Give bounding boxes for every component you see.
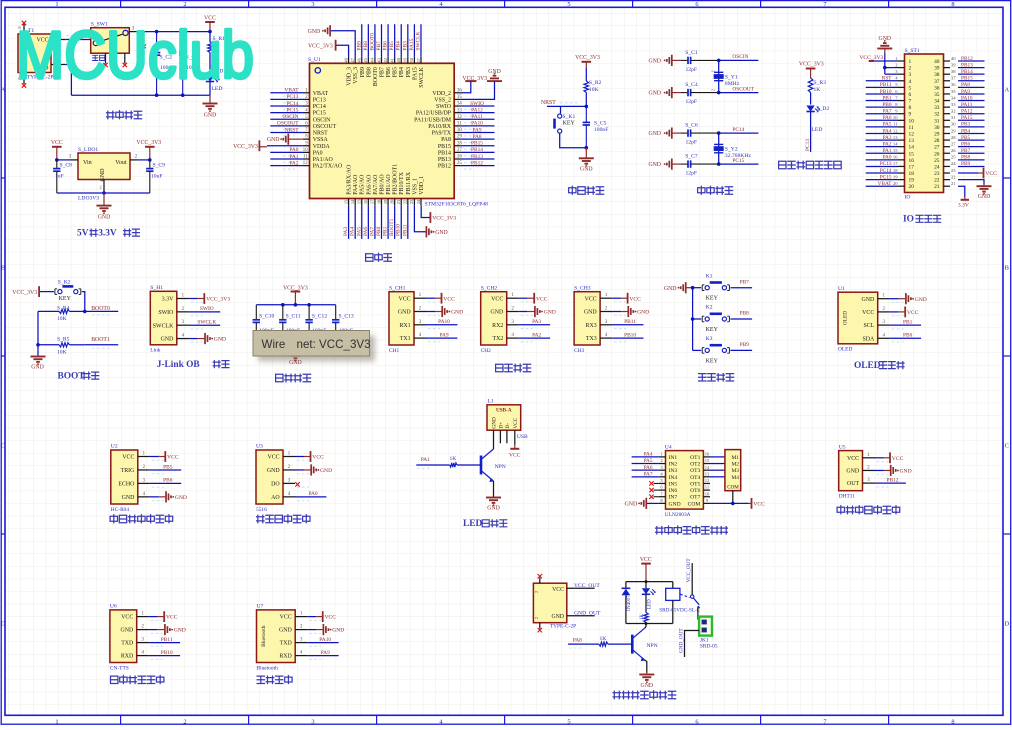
caption dht11	[837, 506, 900, 514]
svg-text:S_C7: S_C7	[685, 154, 698, 160]
svg-text:MCUclub: MCUclub	[16, 18, 254, 93]
svg-text:S_R3: S_R3	[814, 80, 827, 86]
resistor S_R1	[209, 32, 211, 42]
svg-text:C: C	[1, 442, 5, 449]
svg-text:PA4: PA4	[644, 452, 653, 458]
svg-text:39: 39	[934, 66, 940, 72]
svg-text:PA9: PA9	[321, 650, 330, 656]
wire	[710, 463, 725, 465]
no connect	[649, 495, 653, 499]
header S_ST1 body	[905, 54, 944, 193]
svg-text:M3: M3	[732, 468, 740, 474]
svg-text:Vout: Vout	[115, 160, 127, 166]
svg-text:GND: GND	[544, 310, 556, 316]
svg-text:47: 47	[350, 57, 355, 62]
wire	[461, 105, 495, 107]
svg-text:U3: U3	[256, 444, 263, 450]
svg-text:SDA: SDA	[863, 336, 876, 342]
svg-text:Vin: Vin	[83, 160, 92, 166]
wire key rail	[692, 288, 694, 351]
svg-text:VCC_3V3: VCC_3V3	[233, 144, 258, 150]
svg-text:S_D2: S_D2	[817, 106, 830, 112]
svg-text:BOOT0: BOOT0	[369, 33, 375, 51]
svg-text:PA9: PA9	[439, 332, 448, 338]
svg-text:VCC: VCC	[509, 452, 521, 458]
svg-text:TXD: TXD	[280, 641, 293, 647]
wire	[890, 311, 899, 313]
wire	[958, 73, 985, 75]
svg-text:HC-R04: HC-R04	[111, 507, 130, 513]
svg-text:VCC_3V3: VCC_3V3	[432, 216, 456, 222]
wire	[307, 629, 316, 631]
wire filter top rail	[256, 304, 335, 306]
wire	[270, 105, 303, 107]
svg-text:VBAT: VBAT	[878, 181, 893, 187]
svg-text:8: 8	[951, 1, 954, 8]
wire boot1	[85, 344, 118, 346]
svg-text:TRIG: TRIG	[121, 468, 135, 474]
svg-text:VCC: VCC	[443, 296, 455, 302]
svg-text:23: 23	[409, 199, 414, 204]
caption relay	[613, 691, 676, 699]
svg-text:14: 14	[350, 199, 355, 204]
svg-text:2: 2	[183, 1, 186, 8]
no-connect T2 bottom	[539, 623, 541, 629]
svg-text:PA3/RX/AO: PA3/RX/AO	[347, 164, 353, 195]
svg-text:GND: GND	[846, 469, 860, 475]
svg-text:40: 40	[951, 56, 956, 61]
wire	[866, 93, 898, 95]
svg-text:5: 5	[567, 1, 570, 8]
svg-text:D: D	[1, 620, 6, 627]
svg-text:LED: LED	[647, 599, 652, 609]
wire	[150, 496, 159, 498]
wire relay bottom rail	[626, 623, 673, 625]
wire	[958, 100, 985, 102]
svg-text:PA0: PA0	[289, 147, 298, 153]
wire	[348, 205, 350, 239]
no-ERC marker	[142, 45, 146, 49]
ground GND filter	[294, 334, 296, 353]
svg-text:PA2: PA2	[532, 332, 541, 338]
wire	[150, 469, 181, 471]
capacitor S_C13	[335, 305, 337, 320]
pin gnd of LDO1	[103, 180, 105, 194]
junction VCC R1	[208, 30, 212, 34]
svg-text:1K: 1K	[640, 614, 645, 621]
svg-text:GND: GND	[492, 417, 498, 429]
wire	[612, 297, 621, 299]
wire power bottom rail	[71, 94, 210, 96]
wire	[875, 457, 884, 459]
svg-text:1uF: 1uF	[55, 174, 64, 180]
caption keys	[699, 374, 734, 381]
svg-text:25: 25	[951, 155, 956, 160]
svg-text:M1: M1	[732, 455, 740, 461]
svg-text:GND: GND	[551, 614, 564, 620]
svg-text:33: 33	[934, 105, 940, 111]
wire	[958, 159, 985, 161]
capacitor S_C11	[282, 305, 284, 320]
svg-text:13: 13	[909, 138, 915, 144]
svg-text:PB14: PB14	[471, 147, 483, 153]
wire	[189, 338, 198, 340]
svg-text:VSSA: VSSA	[313, 137, 329, 143]
no-connect pin top of T1	[23, 24, 25, 34]
svg-text:PA0: PA0	[883, 155, 892, 161]
svg-text:SWIO: SWIO	[158, 310, 174, 316]
capacitor S_C8	[56, 160, 58, 169]
switch S_SW1	[91, 28, 130, 54]
wire	[719, 132, 759, 134]
svg-text:19: 19	[893, 174, 898, 179]
svg-text:TX1: TX1	[400, 336, 411, 342]
svg-text:34: 34	[951, 95, 956, 100]
svg-text:16: 16	[909, 158, 915, 164]
mcu U1 body	[310, 63, 455, 198]
svg-text:PA10/RX: PA10/RX	[428, 124, 451, 130]
svg-text:PB15: PB15	[471, 141, 483, 147]
svg-text:GND: GND	[122, 495, 136, 501]
svg-text:PB12: PB12	[438, 164, 451, 170]
power port GND	[204, 333, 206, 344]
wire	[612, 324, 643, 326]
svg-text:BOOT1: BOOT1	[91, 337, 110, 343]
svg-text:21: 21	[396, 200, 401, 205]
wire	[632, 463, 659, 465]
power port GND	[322, 624, 324, 635]
svg-text:COM: COM	[727, 485, 739, 491]
svg-text:PB1/AO: PB1/AO	[386, 174, 392, 195]
svg-text:D+: D+	[499, 422, 505, 429]
wire	[426, 324, 457, 326]
svg-text:VCC_OUT: VCC_OUT	[686, 558, 692, 583]
svg-text:VCC: VCC	[985, 171, 997, 177]
wire	[270, 125, 303, 127]
svg-text:VSS_1: VSS_1	[412, 178, 418, 195]
svg-text:PB12: PB12	[961, 56, 973, 62]
wire	[189, 298, 198, 300]
svg-text:10K: 10K	[57, 316, 67, 322]
svg-text:1K: 1K	[450, 456, 457, 462]
svg-text:24: 24	[416, 199, 421, 204]
svg-text:PA5: PA5	[883, 122, 892, 128]
wire	[866, 119, 898, 121]
junction bottom C2	[155, 93, 159, 97]
wire	[367, 205, 369, 239]
svg-text:PB11/RX: PB11/RX	[406, 171, 412, 194]
no connect	[295, 482, 299, 486]
svg-text:U6: U6	[110, 604, 117, 610]
wire	[958, 119, 985, 121]
svg-text:100nF: 100nF	[594, 127, 608, 133]
wire nrst	[547, 105, 586, 107]
svg-text:GND: GND	[487, 506, 500, 512]
wire vcc to pin3	[57, 159, 71, 161]
no-connect pin bottom of T1	[23, 73, 25, 85]
wire	[958, 93, 985, 95]
svg-text:VCC: VCC	[325, 615, 337, 621]
svg-text:16: 16	[893, 155, 898, 160]
svg-text:VCC: VCC	[491, 296, 503, 302]
driver gnd pin wire	[647, 502, 659, 504]
svg-text:PB3: PB3	[961, 122, 970, 128]
wire	[866, 100, 898, 102]
svg-text:PB5: PB5	[163, 464, 173, 470]
svg-text:VCC: VCC	[280, 615, 292, 621]
svg-text:VCC: VCC	[398, 296, 410, 302]
svg-text:12pF: 12pF	[686, 140, 698, 146]
svg-text:ECHO: ECHO	[118, 482, 135, 488]
svg-text:13: 13	[343, 199, 348, 204]
ground GND keys	[685, 282, 687, 293]
svg-text:VCC_3V3: VCC_3V3	[12, 290, 37, 296]
wire	[890, 324, 921, 326]
svg-text:9: 9	[909, 112, 912, 118]
svg-text:21: 21	[951, 181, 956, 186]
svg-text:PB15: PB15	[438, 144, 451, 150]
svg-text:PB0: PB0	[376, 226, 382, 236]
module U6 body	[110, 610, 137, 663]
svg-text:PB5: PB5	[961, 135, 970, 141]
junction C3 top	[181, 30, 185, 34]
power port GND	[890, 465, 892, 476]
svg-text:VCC: VCC	[167, 455, 179, 461]
wire	[866, 80, 898, 82]
svg-text:18: 18	[909, 171, 915, 177]
svg-text:2: 2	[909, 66, 912, 72]
svg-text:SWIO: SWIO	[470, 101, 484, 107]
svg-text:STM32F103C8T6_LQFP48: STM32F103C8T6_LQFP48	[425, 202, 489, 208]
wire	[461, 81, 495, 99]
svg-text:A: A	[1, 86, 6, 93]
svg-text:PA9: PA9	[961, 89, 970, 95]
no connect	[649, 488, 653, 492]
svg-text:40: 40	[396, 57, 401, 62]
svg-text:SWIO: SWIO	[200, 306, 214, 312]
svg-text:S_C1: S_C1	[685, 50, 698, 56]
svg-text:GND: GND	[451, 310, 463, 316]
svg-text:PA1: PA1	[421, 457, 430, 463]
wire	[875, 469, 884, 471]
module S_CH1 body	[389, 292, 414, 345]
svg-text:GND: GND	[320, 468, 332, 474]
svg-text:GND: GND	[915, 297, 927, 303]
svg-text:PB1: PB1	[882, 95, 891, 101]
wire	[719, 59, 759, 61]
svg-text:PB13: PB13	[471, 154, 483, 160]
svg-text:10: 10	[909, 118, 915, 124]
wire	[519, 337, 550, 339]
junction ldo gnd	[102, 191, 106, 195]
svg-text:12pF: 12pF	[686, 99, 698, 105]
svg-text:PA9/TX: PA9/TX	[432, 131, 452, 137]
caption filter	[276, 374, 311, 381]
svg-text:OT4: OT4	[690, 475, 700, 481]
wire filter bottom rail	[256, 333, 335, 335]
svg-text:S_U1: S_U1	[308, 57, 321, 63]
wire	[381, 24, 383, 57]
svg-text:16: 16	[363, 199, 368, 204]
svg-text:S_K2: S_K2	[58, 279, 71, 285]
caption program led	[779, 161, 842, 168]
svg-text:24: 24	[934, 164, 940, 170]
svg-text:GND: GND	[648, 59, 661, 65]
pin vcc of T2	[567, 587, 595, 589]
svg-text:PB11: PB11	[880, 82, 892, 88]
wire motor com	[732, 491, 734, 504]
svg-text:PB7: PB7	[376, 41, 382, 51]
wire	[710, 456, 725, 458]
svg-text:U1: U1	[838, 286, 845, 292]
svg-text:PA7: PA7	[883, 109, 892, 115]
svg-text:6: 6	[695, 718, 698, 725]
svg-text:39: 39	[951, 62, 956, 67]
wire	[866, 113, 898, 115]
svg-text:NPN: NPN	[647, 643, 658, 649]
power port GND	[441, 306, 443, 317]
svg-text:PA7/AO: PA7/AO	[373, 174, 379, 195]
svg-text:22: 22	[951, 174, 956, 179]
svg-text:PA6: PA6	[883, 115, 892, 121]
svg-text:RX1: RX1	[399, 323, 410, 329]
wire	[958, 106, 985, 108]
wire	[461, 112, 495, 114]
svg-text:OLED: OLED	[843, 311, 849, 325]
svg-text:GND: GND	[214, 337, 226, 343]
wire	[387, 24, 389, 57]
capacitor S_C5	[585, 106, 587, 122]
svg-text:GND: GND	[175, 495, 187, 501]
svg-text:GND: GND	[637, 310, 649, 316]
svg-text:OSCOUT: OSCOUT	[277, 121, 299, 127]
svg-text:OSCOUT: OSCOUT	[732, 86, 754, 92]
svg-text:SWCLK: SWCLK	[153, 323, 174, 329]
svg-text:13: 13	[893, 135, 898, 140]
capacitor S_C9	[149, 160, 151, 169]
svg-text:38: 38	[934, 72, 940, 78]
junction com	[731, 502, 735, 506]
caption main chip	[366, 253, 392, 261]
svg-text:17: 17	[893, 161, 898, 166]
svg-text:PB8: PB8	[961, 155, 970, 161]
svg-text:GND: GND	[491, 310, 505, 316]
svg-text:PB7: PB7	[380, 67, 386, 77]
svg-text:CH3: CH3	[574, 348, 584, 354]
transistor Q1 NPN	[480, 456, 483, 475]
svg-text:PB13: PB13	[438, 157, 451, 163]
svg-text:GND: GND	[161, 337, 175, 343]
svg-text:PB13: PB13	[961, 62, 973, 68]
wire	[361, 24, 363, 57]
usb gnd pin wire	[493, 430, 495, 449]
wire	[307, 655, 338, 657]
svg-text:PA8: PA8	[573, 638, 582, 644]
svg-text:1: 1	[55, 1, 58, 8]
svg-text:PA11/USB/DM: PA11/USB/DM	[414, 117, 452, 123]
svg-text:PA2/TX/AO: PA2/TX/AO	[313, 164, 343, 170]
wire	[866, 165, 898, 167]
resistor R 1K relay	[644, 613, 649, 623]
svg-text:37: 37	[934, 79, 940, 85]
wire	[426, 297, 435, 299]
svg-text:VDD_3: VDD_3	[347, 67, 353, 86]
power port VCC	[533, 293, 535, 304]
junction S_C7	[717, 162, 721, 166]
svg-text:PB2/BOOT1: PB2/BOOT1	[393, 164, 399, 195]
svg-text:PA4: PA4	[883, 128, 892, 134]
svg-text:VCC: VCC	[847, 456, 859, 462]
wire	[693, 287, 702, 289]
caption stepper	[656, 526, 728, 534]
module S_CH2 body	[481, 292, 507, 345]
svg-text:37: 37	[416, 57, 421, 62]
junction boot0	[83, 310, 87, 314]
power port GND	[905, 293, 907, 304]
svg-text:10: 10	[705, 491, 710, 496]
svg-text:USB-A: USB-A	[496, 408, 512, 414]
svg-text:1K: 1K	[814, 87, 821, 93]
svg-text:KEY: KEY	[563, 121, 576, 127]
module U5 body	[839, 451, 863, 491]
svg-text:14: 14	[705, 465, 710, 470]
wire	[612, 311, 621, 313]
wire	[457, 464, 481, 466]
svg-text:GND: GND	[625, 502, 638, 508]
svg-text:32.768KHz: 32.768KHz	[725, 153, 751, 159]
svg-text:VCC_3V3: VCC_3V3	[308, 43, 333, 49]
svg-text:PB14: PB14	[961, 69, 973, 75]
module S_H1 body	[150, 291, 177, 345]
power port GND	[627, 306, 629, 317]
power port GND vss1	[425, 226, 427, 237]
svg-text:CN-TTS: CN-TTS	[110, 665, 129, 671]
wire	[150, 482, 181, 484]
wire	[866, 146, 898, 148]
svg-text:VCC_3V3: VCC_3V3	[575, 55, 600, 61]
svg-text:PA12: PA12	[961, 109, 973, 115]
svg-text:KEY: KEY	[706, 358, 719, 364]
wire	[958, 132, 985, 134]
svg-text:27: 27	[951, 141, 956, 146]
svg-text:PB7: PB7	[961, 148, 970, 154]
svg-text:IN7: IN7	[669, 495, 678, 501]
svg-text:1: 1	[909, 59, 912, 65]
svg-text:U2: U2	[111, 444, 118, 450]
svg-text:PB7: PB7	[740, 279, 750, 285]
svg-text:35: 35	[934, 92, 940, 98]
svg-text:16: 16	[705, 452, 710, 457]
svg-text:PB12: PB12	[887, 477, 899, 483]
wire	[890, 298, 899, 300]
svg-text:PB12: PB12	[471, 160, 483, 166]
wire	[693, 318, 702, 320]
svg-text:PB10: PB10	[161, 650, 173, 656]
usb vcc pin	[514, 430, 516, 444]
svg-text:K2: K2	[706, 305, 713, 311]
svg-text:GND: GND	[267, 468, 281, 474]
svg-text:S_ST1: S_ST1	[905, 48, 920, 54]
wire	[884, 49, 886, 54]
svg-text:41: 41	[389, 58, 394, 63]
svg-text:PB9: PB9	[961, 161, 970, 167]
svg-text:GND: GND	[648, 162, 661, 168]
svg-text:1: 1	[55, 718, 58, 725]
svg-text:S_C6: S_C6	[685, 123, 698, 129]
svg-text:VCC_3V3: VCC_3V3	[136, 140, 161, 146]
transistor Q2 NPN relay	[631, 635, 634, 654]
wire	[958, 60, 985, 62]
